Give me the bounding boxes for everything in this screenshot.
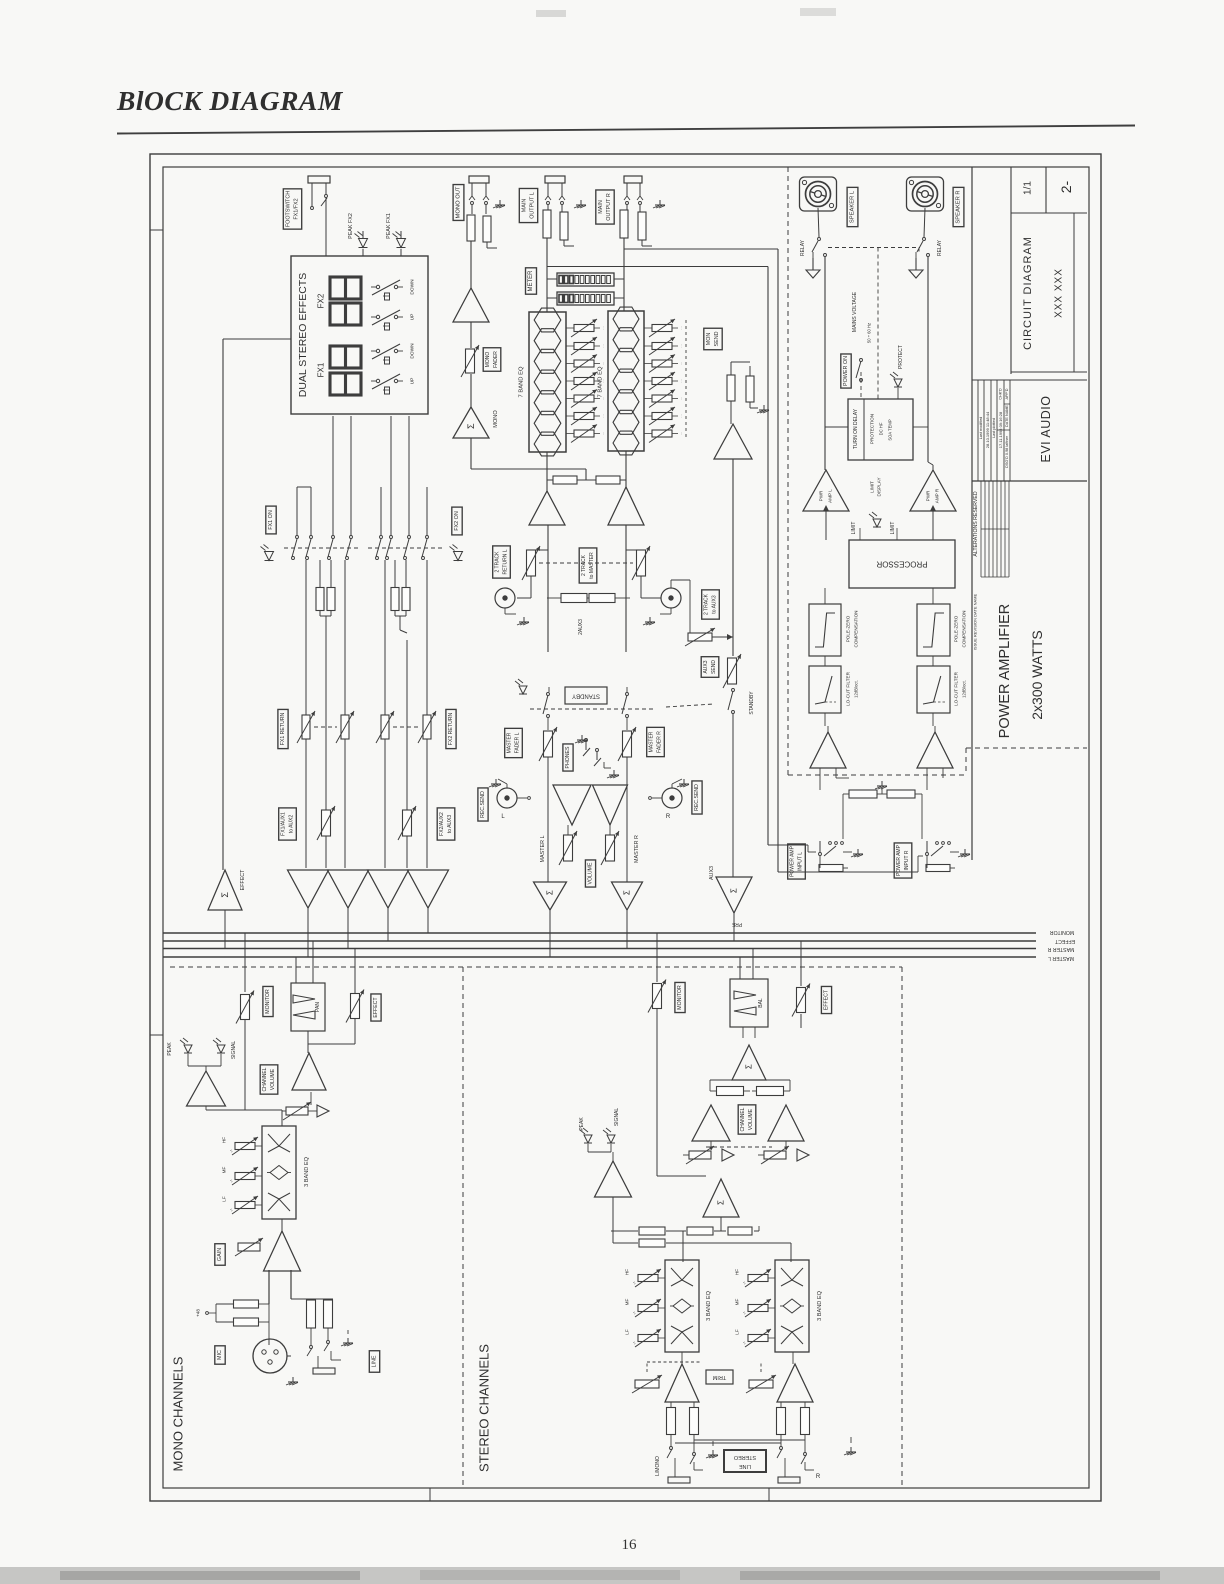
svg-text:OUTPUT L: OUTPUT L <box>530 192 536 219</box>
label POWER ON <box>841 354 851 388</box>
svg-text:···: ··· <box>601 414 606 418</box>
label RELAY R <box>937 239 943 256</box>
svg-text:MONO: MONO <box>485 352 491 368</box>
svg-text:LIMIT: LIMIT <box>890 522 896 535</box>
svg-text:Σ: Σ <box>745 1064 754 1069</box>
svg-text:APP'D: APP'D <box>1005 388 1009 399</box>
led PEAK FX2 <box>355 231 368 256</box>
display FX1 digit 2 <box>330 373 361 395</box>
svg-text:·/·: ·/· <box>632 1341 637 1345</box>
block PROCESSOR <box>849 540 955 588</box>
resistor fx1 a <box>305 560 307 868</box>
svg-text:CHANNEL: CHANNEL <box>740 1107 746 1131</box>
svg-text:LO-CUT FILTER: LO-CUT FILTER <box>846 671 851 705</box>
rca rec send L <box>497 788 530 820</box>
label L/MONO <box>655 1456 661 1476</box>
svg-text:STANDBY: STANDBY <box>572 693 600 699</box>
pot LF mono <box>222 1196 263 1214</box>
block pole-zero L <box>809 604 841 656</box>
svg-text:PROCESSOR: PROCESSOR <box>876 560 927 569</box>
wire eq to gain amp mono <box>281 1219 283 1231</box>
led LIMIT DISPLAY <box>869 512 881 527</box>
wire effect sum to fx box <box>223 339 291 870</box>
svg-text:28.10.1999 11:48:44: 28.10.1999 11:48:44 <box>985 411 990 448</box>
wire master R chain <box>625 525 627 652</box>
amp fx bus 1 <box>288 870 329 957</box>
label SPEAKER R <box>953 187 964 226</box>
led signal stereo <box>603 1128 615 1143</box>
label FX1 RETURN <box>278 709 288 748</box>
svg-text:50 ÷ 60 Hz: 50 ÷ 60 Hz <box>867 323 872 343</box>
wire effect sum to bus <box>224 910 226 949</box>
pot trim R <box>746 1375 776 1393</box>
resistor master mix L <box>547 476 597 484</box>
eq pots dashed rail <box>685 320 687 440</box>
label 50-60 Hz <box>867 323 872 343</box>
svg-text:PWR: PWR <box>926 490 931 501</box>
svg-text:METER: METER <box>528 270 534 292</box>
resistor master mix R <box>596 476 626 484</box>
rca 2 track return L <box>495 588 516 614</box>
pot gain mono <box>235 1238 263 1256</box>
label R stereo <box>816 1474 821 1480</box>
amp sum AUX3 <box>716 877 752 913</box>
label DOWN <box>410 279 416 295</box>
wires fx box outputs down <box>297 416 427 535</box>
title underline <box>117 126 1135 134</box>
wire 2track to aux pot <box>671 580 690 637</box>
switch standby L <box>543 687 550 730</box>
label PROTECT <box>898 345 904 369</box>
svg-text:Σ: Σ <box>623 890 632 895</box>
svg-text:TRIM: TRIM <box>712 1374 726 1380</box>
resistor stereo rail c <box>728 1227 752 1235</box>
label 2 TRACK RETURN L <box>493 546 511 578</box>
label PRE <box>731 921 742 927</box>
label 2 TRACK to MASTER <box>579 548 597 583</box>
bus line master R <box>163 948 1036 950</box>
amp master L <box>529 491 565 525</box>
xlr MIC connector <box>253 1339 291 1373</box>
wire sum L to bus <box>549 910 551 957</box>
label VOLUME <box>585 860 595 887</box>
label MIC <box>215 1346 225 1364</box>
pot monitor stereo <box>648 980 706 1177</box>
jack power input R <box>926 841 960 872</box>
display FX2 digit 2 <box>330 303 361 325</box>
label PEAK FX1 <box>386 213 392 239</box>
svg-text:+48: +48 <box>196 1309 201 1317</box>
date table <box>978 380 1010 481</box>
svg-text:1/1: 1/1 <box>1023 181 1034 195</box>
resistor power fb R <box>882 790 922 798</box>
label DUAL STEREO EFFECTS <box>297 273 309 397</box>
bus line master L <box>163 956 1036 958</box>
label STEREO LINE <box>724 1450 766 1472</box>
svg-text:CHANNEL: CHANNEL <box>262 1067 268 1091</box>
eq block 7 band L <box>529 308 566 456</box>
label MONITOR mono <box>263 986 273 1016</box>
svg-text:···: ··· <box>679 432 684 436</box>
svg-text:Last modified: Last modified <box>979 417 983 440</box>
svg-text:FX1 ON: FX1 ON <box>268 510 274 530</box>
label REC.SEND L <box>478 788 488 821</box>
svg-text:3 BAND EQ: 3 BAND EQ <box>304 1156 310 1186</box>
svg-text:POWER AMPLIFIER: POWER AMPLIFIER <box>997 604 1013 739</box>
resistor mono out b <box>483 205 497 248</box>
amp sum stereo mix <box>703 1179 739 1217</box>
svg-text:···: ··· <box>679 344 684 348</box>
svg-text:·/·: ·/· <box>742 1311 747 1315</box>
svg-text:PROTECT: PROTECT <box>898 345 904 369</box>
label FX1 <box>317 362 326 377</box>
svg-text:2 TRACK: 2 TRACK <box>495 551 501 573</box>
label AUX3 SEND <box>701 657 719 678</box>
label 3 BAND EQ mono <box>304 1156 310 1186</box>
svg-text:HF: HF <box>222 1137 227 1143</box>
ground power input L <box>851 849 863 857</box>
svg-text:INPUT R: INPUT R <box>904 850 910 870</box>
pot MONO FADER <box>461 345 479 377</box>
pot LF stereo L <box>625 1329 666 1347</box>
wire protection to amps <box>825 426 928 428</box>
wire sum R to bus <box>626 910 628 949</box>
svg-text:CHK'D: CHK'D <box>999 388 1003 400</box>
svg-text:MONO: MONO <box>493 410 499 428</box>
switch group FX1 <box>284 536 358 560</box>
resistor line b <box>324 1300 333 1328</box>
svg-text:7 BAND EQ: 7 BAND EQ <box>519 366 525 397</box>
resistor stereo mix R <box>710 1080 790 1096</box>
svg-text:2-: 2- <box>1058 180 1074 193</box>
svg-text:INPUT L: INPUT L <box>797 852 803 871</box>
svg-text:MAIN: MAIN <box>522 199 528 213</box>
speakon SPEAKER R <box>907 177 944 211</box>
wire eq R to master mix <box>625 451 627 487</box>
switch group FX2 <box>368 536 442 560</box>
amp PWR AMP L <box>803 470 849 511</box>
svg-text:LF: LF <box>625 1329 630 1335</box>
svg-text:2 TRACK: 2 TRACK <box>704 593 710 615</box>
pot FX1 aux send <box>317 806 335 840</box>
svg-text:MONO CHANNELS: MONO CHANNELS <box>171 1356 186 1471</box>
svg-text:···: ··· <box>679 379 684 383</box>
svg-text:STEREO CHANNELS: STEREO CHANNELS <box>477 1344 492 1472</box>
wire main L down to meter and eq <box>546 267 548 313</box>
svg-text:TURN ON DELAY: TURN ON DELAY <box>853 408 859 449</box>
svg-text:EFFECT: EFFECT <box>240 869 246 891</box>
svg-text:DATE NAME: DATE NAME <box>1005 405 1009 427</box>
ground rec L <box>489 779 507 788</box>
svg-text:···: ··· <box>679 414 684 418</box>
jack power input L <box>819 841 853 872</box>
buffer stereo R <box>786 1149 809 1161</box>
svg-text:FX1/FX2: FX1/FX2 <box>294 198 300 219</box>
amp input stereo R <box>777 1364 813 1402</box>
svg-text:MASTER: MASTER <box>649 731 655 752</box>
label MAINS VOLTAGE <box>852 291 858 332</box>
label POWER AMP INPUT L <box>788 844 806 879</box>
label FOOTSWITCH FX1/FX2 <box>283 189 301 229</box>
resistor pair FX1 <box>316 560 335 868</box>
svg-text:SIGNAL: SIGNAL <box>231 1041 237 1060</box>
svg-text:···: ··· <box>601 326 606 330</box>
block PAN mono <box>291 983 325 1031</box>
svg-text:PWR: PWR <box>819 490 824 501</box>
amp power input L <box>810 713 846 768</box>
fader master L <box>539 727 557 882</box>
svg-text:R: R <box>816 1474 821 1480</box>
switch FX1 down <box>371 344 403 364</box>
amp sum EFFECT <box>208 869 246 910</box>
svg-text:to AUX3: to AUX3 <box>447 815 453 834</box>
title block grid <box>972 167 1087 481</box>
standby dashed rail <box>530 704 714 709</box>
title text XXX XXX <box>1054 268 1065 318</box>
amp input mono <box>264 1231 301 1271</box>
label EFFECT mono <box>371 994 381 1021</box>
svg-text:FX1: FX1 <box>317 362 326 377</box>
pot 2 track return R <box>539 546 661 598</box>
block pole-zero R <box>917 604 950 656</box>
svg-text:COMPENSATION: COMPENSATION <box>854 611 859 648</box>
svg-text:VOLUME: VOLUME <box>588 862 594 884</box>
resistor main L b <box>560 205 574 246</box>
jack MAIN OUTPUT R <box>624 176 643 205</box>
svg-text:STEREO: STEREO <box>734 1454 756 1460</box>
label LIMIT DISPLAY <box>870 477 882 496</box>
mains dashed rails <box>828 248 920 400</box>
label CHANNEL VOLUME stereo <box>738 1105 756 1134</box>
pot volume R <box>601 825 619 865</box>
svg-text:MASTER L: MASTER L <box>540 836 546 863</box>
channels dashed divider mono/stereo <box>462 967 464 1487</box>
resistor stereo mix L <box>710 1087 750 1096</box>
svg-text:···: ··· <box>601 397 606 401</box>
svg-text:CIRCUIT DIAGRAM: CIRCUIT DIAGRAM <box>1022 236 1034 350</box>
label EFFECT stereo <box>821 986 831 1013</box>
ground stereo line L <box>703 1441 718 1470</box>
fader master R <box>618 727 636 882</box>
pot effect stereo <box>792 941 810 1028</box>
svg-text:EVI AUDIO: EVI AUDIO <box>1039 395 1053 462</box>
svg-text:MASTER R: MASTER R <box>1047 946 1074 952</box>
pot LF stereo R <box>735 1329 776 1347</box>
svg-text:FX2 RETURN: FX2 RETURN <box>448 712 454 745</box>
wire eq L to master mix <box>546 452 548 491</box>
ground arrow relay L <box>806 252 820 278</box>
label 7 BAND EQ L <box>519 366 525 397</box>
svg-text:LINE: LINE <box>739 1463 751 1469</box>
svg-text:FX2: FX2 <box>317 293 326 308</box>
ground stereo line <box>844 1437 856 1455</box>
svg-text:LF: LF <box>222 1196 227 1202</box>
wire fader to sum <box>470 374 472 407</box>
svg-text:···: ··· <box>679 397 684 401</box>
block lo-cut L <box>809 666 841 713</box>
pot volume L <box>559 825 577 865</box>
svg-text:Σ: Σ <box>730 888 739 893</box>
phones jack <box>583 739 611 769</box>
svg-text:ISSUE REVISION DATE NAME: ISSUE REVISION DATE NAME <box>973 593 978 650</box>
display FX1 digit 1 <box>330 346 361 368</box>
label REC.SEND R <box>692 781 702 814</box>
pot FX2 aux send <box>398 806 416 840</box>
wire main R feed down <box>778 249 923 872</box>
svg-text:PAN: PAN <box>315 1002 321 1012</box>
svg-text:MONO OUT: MONO OUT <box>456 186 462 218</box>
label 7 BAND EQ R <box>598 366 604 397</box>
svg-text:POLE-ZERO: POLE-ZERO <box>846 615 851 642</box>
label FX2 RETURN <box>446 709 456 748</box>
svg-text:AMP L: AMP L <box>828 489 833 503</box>
svg-text:VOLUME: VOLUME <box>748 1108 754 1130</box>
rca 2 track return R <box>660 588 681 614</box>
label 2 TRACK to AUX3 <box>702 590 720 619</box>
svg-text:POLE-ZERO: POLE-ZERO <box>954 615 959 642</box>
svg-text:FADER L: FADER L <box>514 732 520 753</box>
wire mon send down <box>732 459 734 656</box>
resistor stereo rail a <box>639 1227 665 1235</box>
resistor main R b <box>638 205 652 246</box>
amp mono output <box>453 288 489 322</box>
label MASTER R vertical <box>634 835 640 863</box>
svg-text:SPEAKER R: SPEAKER R <box>956 190 962 223</box>
pot FX2 return R <box>393 711 436 743</box>
label SOA TEMP <box>888 419 893 441</box>
label POLE-ZERO COMPENSATION L <box>846 611 859 648</box>
svg-text:EFFECT: EFFECT <box>373 997 379 1018</box>
led PEAK FX1 <box>393 231 406 256</box>
jack MAIN OUTPUT L <box>545 176 565 205</box>
wire stereo line crossbar <box>675 1440 805 1443</box>
resistor input stereo La <box>667 1402 676 1435</box>
label FX2 ON <box>452 507 462 535</box>
label FX2/AUX2 to AUX3 <box>437 808 455 840</box>
wire pan to bus <box>296 941 313 1053</box>
svg-text:Σ: Σ <box>466 423 476 429</box>
label MAIN OUTPUT L <box>519 188 537 222</box>
svg-text:MASTER L: MASTER L <box>1048 955 1074 961</box>
wire monitor mono to bus <box>244 933 246 992</box>
label DOWN fx1 <box>410 343 416 359</box>
title text CIRCUIT DIAGRAM <box>1022 236 1034 350</box>
ground arrow relay R <box>909 252 923 278</box>
speakon SPEAKER L <box>800 177 837 211</box>
jack line mono <box>307 1328 341 1374</box>
label MONITOR stereo <box>675 982 685 1012</box>
pot HF mono <box>222 1137 263 1155</box>
pot channel mono <box>282 1102 311 1120</box>
svg-text:DSG'D 0.98 laffner: DSG'D 0.98 laffner <box>1005 435 1009 467</box>
switch FX2 up <box>371 310 403 330</box>
svg-text:AUX3: AUX3 <box>703 660 709 673</box>
ground phones <box>575 735 619 778</box>
svg-text:OUTPUT R: OUTPUT R <box>606 193 612 221</box>
svg-text:HF: HF <box>735 1269 740 1275</box>
svg-text:PROTECTION: PROTECTION <box>870 414 875 444</box>
label LIMIT R <box>890 522 896 535</box>
svg-text:Σ: Σ <box>220 892 230 898</box>
ground mic <box>286 1377 298 1385</box>
amp master R <box>608 487 644 525</box>
svg-text:RETURN L: RETURN L <box>502 549 508 574</box>
label SPEAKER L <box>847 187 858 226</box>
label LO-CUT FILTER L <box>846 671 859 705</box>
power amp dashed enclosure <box>788 167 1087 775</box>
drawing name 2x300 WATTS <box>1029 630 1045 719</box>
svg-text:AMP R: AMP R <box>935 488 940 503</box>
label PEAK FX2 <box>348 213 354 239</box>
label MONO FADER <box>483 348 501 372</box>
svg-text:MONITOR: MONITOR <box>677 985 683 1010</box>
label STANDBY vertical <box>749 691 755 715</box>
wire master L chain <box>547 525 549 652</box>
wire main L down <box>546 238 548 267</box>
wire input amp to sources <box>269 1270 333 1345</box>
title block left border <box>971 167 973 860</box>
svg-text:MF: MF <box>222 1166 227 1173</box>
switch power on <box>856 359 863 382</box>
svg-text:L/MONO: L/MONO <box>655 1456 661 1476</box>
trim dashed link <box>647 1362 761 1377</box>
ground rec R <box>672 779 689 788</box>
ground main L <box>574 200 586 208</box>
resistor 2 track b <box>547 594 630 603</box>
wire bal to bus <box>740 949 753 980</box>
display FX2 digit 1 <box>330 277 361 299</box>
svg-text:COMPENSATION: COMPENSATION <box>962 611 967 648</box>
svg-text:MIC: MIC <box>217 1350 223 1360</box>
amp fx bus 2 <box>328 870 369 949</box>
schematic outer frame <box>150 154 1101 1501</box>
schematic inner frame <box>163 167 1089 1488</box>
wire main L to power amp feed <box>547 266 768 268</box>
svg-text:Σ: Σ <box>717 1200 726 1205</box>
ground main R <box>653 200 665 208</box>
eq pots column L <box>566 319 606 443</box>
amp sum MONO <box>453 407 499 438</box>
resistor mic a <box>216 1300 269 1322</box>
resistor main R a <box>620 205 628 238</box>
page number 16 <box>622 1537 638 1553</box>
svg-text:FX2/AUX2: FX2/AUX2 <box>439 812 445 836</box>
svg-text:EFFECT: EFFECT <box>1054 938 1075 944</box>
ground 2 track L <box>517 617 529 625</box>
svg-text:Last plotted: Last plotted <box>992 418 996 438</box>
jack MONO OUT <box>469 176 489 205</box>
svg-text:VOLUME: VOLUME <box>270 1068 276 1090</box>
amp fx bus 3 <box>368 870 409 941</box>
pot trim L <box>632 1375 662 1393</box>
svg-text:2AUX3: 2AUX3 <box>578 619 584 635</box>
svg-text:DC HF: DC HF <box>879 422 884 435</box>
pot HF stereo L <box>625 1269 666 1287</box>
pot channel stereo R <box>758 1141 789 1164</box>
svg-text:FX1/AUX1: FX1/AUX1 <box>281 812 287 836</box>
label MONO CHANNELS <box>171 1356 186 1471</box>
amp sum stereo monitor <box>732 1027 766 1080</box>
label STANDBY box <box>565 687 607 704</box>
amp channel volume mono <box>292 1053 326 1090</box>
bus line effect <box>163 940 1036 942</box>
label MASTER L vertical <box>540 836 546 863</box>
amp input stereo L <box>665 1364 699 1402</box>
svg-text:12dB/oct.: 12dB/oct. <box>962 680 967 698</box>
label DC HF <box>879 422 884 435</box>
svg-text:2x300 WATTS: 2x300 WATTS <box>1029 630 1045 719</box>
svg-text:FADER R: FADER R <box>656 731 662 753</box>
